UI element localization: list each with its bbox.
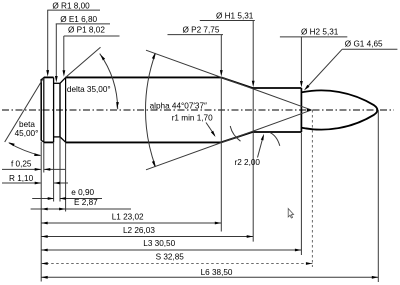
base chamfer top (beta): [41, 77, 45, 80]
svg-text:r1 min 1,70: r1 min 1,70: [172, 114, 213, 123]
svg-text:Ø H2 5,31: Ø H2 5,31: [301, 28, 339, 37]
r2 fillet arc: [270, 132, 280, 146]
rim bottom surface: [44, 141, 54, 143]
body start circle line: [65, 77, 67, 142]
shoulder bottom: [221, 132, 253, 142]
neck top: [252, 87, 301, 89]
svg-text:L6 38,50: L6 38,50: [201, 268, 233, 277]
r2 leader: [258, 136, 264, 158]
rim rear face: [53, 77, 55, 142]
alpha apex arrowhead: [307, 109, 313, 111]
case body bottom: [65, 141, 221, 143]
case head base face: [40, 80, 42, 140]
svg-text:Ø G1 4,65: Ø G1 4,65: [345, 40, 383, 49]
shoulder top: [221, 77, 253, 88]
beta angle arc: [9, 143, 41, 156]
delta angle arc: [100, 54, 118, 110]
svg-text:delta 35,00°: delta 35,00°: [67, 85, 111, 94]
body start extension line: [65, 143, 67, 212]
L1 extension below case: [220, 143, 222, 232]
P2 station line through case: [220, 77, 222, 142]
svg-text:R 1,10: R 1,10: [9, 174, 34, 183]
L3 extension below mouth: [300, 133, 302, 256]
extractor groove bottom: [54, 136, 60, 138]
mouse cursor artifact: [288, 209, 293, 219]
S station dotted extension: [311, 110, 313, 267]
beta leader line: [5, 78, 44, 142]
chamfer extension line: [43, 143, 45, 173]
L6 extension from bullet tip: [377, 110, 379, 282]
H1 station line through neck / L2 extension: [252, 89, 254, 242]
svg-text:alpha 44°07′37″: alpha 44°07′37″: [150, 102, 207, 111]
rim top surface: [44, 76, 54, 78]
neck bottom: [252, 131, 301, 133]
extractor groove top: [54, 82, 60, 84]
svg-text:L1 23,02: L1 23,02: [112, 213, 144, 222]
base face extension line: [40, 142, 42, 282]
case mouth face: [300, 88, 302, 132]
base chamfer bottom (beta): [41, 140, 45, 143]
chamfer edge line: [43, 77, 45, 142]
bullet outline: [302, 90, 378, 129]
svg-text:Ø E1 6,80: Ø E1 6,80: [60, 15, 97, 24]
delta cone line (35 deg): [66, 47, 101, 77]
case body top: [65, 76, 221, 78]
svg-text:E 2,87: E 2,87: [74, 198, 98, 207]
svg-text:45,00°: 45,00°: [15, 129, 39, 138]
svg-text:Ø P1 8,02: Ø P1 8,02: [68, 26, 105, 35]
rim face extension line: [53, 143, 55, 202]
svg-text:L2 26,03: L2 26,03: [123, 226, 155, 235]
svg-text:Ø H1 5,31: Ø H1 5,31: [216, 12, 254, 21]
alpha angle arc: [145, 54, 155, 167]
svg-text:S 32,85: S 32,85: [156, 253, 185, 262]
groove-bevel junction line: [59, 83, 61, 137]
r1 fillet arc: [230, 126, 240, 141]
svg-text:f 0,25: f 0,25: [11, 160, 32, 169]
r1 leader: [206, 123, 215, 136]
bevel bottom: [60, 137, 66, 142]
alpha cone line lower: [146, 110, 311, 170]
bevel top: [60, 78, 66, 84]
svg-text:L3 30,50: L3 30,50: [143, 239, 175, 248]
groove extension line: [59, 137, 61, 201]
svg-text:Ø P2 7,75: Ø P2 7,75: [183, 26, 220, 35]
alpha cone line upper: [146, 50, 311, 110]
svg-text:Ø R1 8,00: Ø R1 8,00: [52, 1, 90, 10]
svg-text:r2 2,00: r2 2,00: [235, 158, 261, 167]
centerline (case axis): [2, 109, 394, 111]
svg-text:e 0,90: e 0,90: [71, 188, 94, 197]
